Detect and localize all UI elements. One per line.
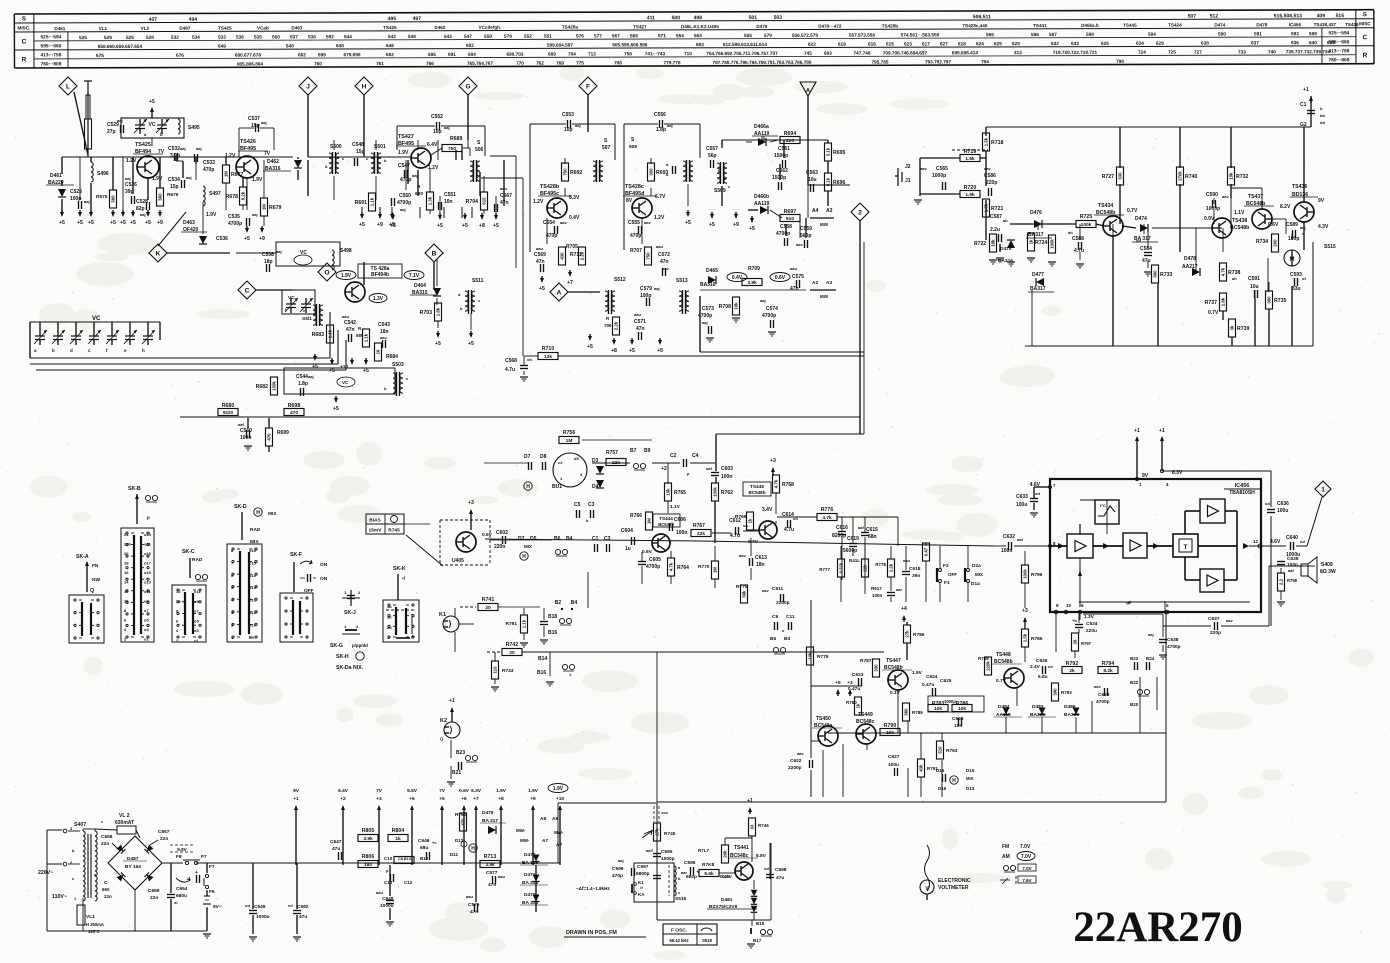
svg-text:3k: 3k bbox=[1230, 325, 1235, 330]
svg-text:1M: 1M bbox=[713, 567, 718, 573]
svg-text:1.1V: 1.1V bbox=[1234, 210, 1245, 216]
svg-text:150k: 150k bbox=[272, 381, 277, 391]
svg-text:+5: +5 bbox=[629, 348, 635, 354]
svg-text:+5: +5 bbox=[435, 341, 441, 347]
svg-text:+9: +9 bbox=[259, 236, 265, 242]
svg-text:685: 685 bbox=[428, 52, 436, 57]
svg-text:10p: 10p bbox=[564, 127, 573, 133]
svg-text:538: 538 bbox=[308, 34, 316, 39]
svg-text:C9: C9 bbox=[772, 614, 778, 620]
svg-text:R699: R699 bbox=[277, 430, 289, 436]
svg-text:470p: 470p bbox=[630, 233, 641, 239]
svg-text:690: 690 bbox=[415, 191, 423, 197]
svg-text:o13: o13 bbox=[249, 585, 257, 590]
svg-text:+7: +7 bbox=[473, 796, 479, 802]
svg-text:741···743: 741···743 bbox=[645, 51, 666, 56]
svg-text:8V: 8V bbox=[626, 198, 633, 204]
svg-text:638: 638 bbox=[1201, 41, 1209, 46]
svg-text:TS426: TS426 bbox=[383, 25, 397, 30]
svg-text:617: 617 bbox=[922, 41, 930, 46]
svg-text:A7: A7 bbox=[542, 838, 548, 844]
svg-text:R798: R798 bbox=[1287, 578, 1298, 583]
svg-text:D1a: D1a bbox=[971, 581, 980, 587]
svg-text:aav: aav bbox=[1094, 684, 1101, 689]
svg-text:7V: 7V bbox=[439, 788, 446, 794]
svg-text:H: H bbox=[362, 83, 367, 90]
svg-text:9V: 9V bbox=[1318, 198, 1325, 204]
svg-text:t°C: t°C bbox=[1100, 503, 1106, 508]
svg-text:C659: C659 bbox=[148, 888, 160, 894]
svg-text:aau: aau bbox=[656, 244, 663, 249]
svg-text:1500p: 1500p bbox=[774, 153, 788, 159]
svg-text:H: H bbox=[526, 484, 530, 490]
svg-text:aaj: aaj bbox=[1300, 225, 1306, 230]
svg-text:R805: R805 bbox=[362, 828, 375, 834]
svg-text:18: 18 bbox=[124, 561, 129, 566]
svg-text:586: 586 bbox=[1031, 32, 1039, 37]
svg-text:dd: dd bbox=[1320, 120, 1325, 125]
svg-text:495: 495 bbox=[388, 16, 397, 22]
svg-text:C548: C548 bbox=[352, 142, 364, 148]
svg-text:B5: B5 bbox=[770, 636, 776, 642]
svg-text:765.764.767: 765.764.767 bbox=[467, 61, 493, 66]
svg-text:R683: R683 bbox=[312, 332, 325, 338]
svg-text:+1: +1 bbox=[1159, 428, 1165, 434]
svg-text:7.6V: 7.6V bbox=[1022, 878, 1031, 883]
svg-text:4700p: 4700p bbox=[762, 313, 776, 319]
svg-text:470: 470 bbox=[461, 818, 466, 826]
svg-text:15p: 15p bbox=[356, 149, 365, 155]
svg-text:o16: o16 bbox=[249, 548, 257, 553]
svg-text:R760: R760 bbox=[455, 812, 467, 818]
svg-text:B21: B21 bbox=[452, 770, 461, 776]
svg-text:15p: 15p bbox=[170, 184, 179, 190]
svg-text:C598: C598 bbox=[775, 867, 787, 873]
svg-text:bb: bb bbox=[1320, 113, 1325, 118]
svg-text:o17: o17 bbox=[144, 561, 152, 566]
svg-text:577: 577 bbox=[594, 33, 602, 38]
svg-text:626: 626 bbox=[1101, 41, 1109, 46]
svg-text:C534: C534 bbox=[168, 177, 180, 183]
svg-text:ah: ah bbox=[1003, 218, 1008, 223]
svg-text:0.7V: 0.7V bbox=[1127, 208, 1138, 214]
svg-text:C526: C526 bbox=[125, 182, 137, 188]
svg-text:+4: +4 bbox=[901, 606, 907, 612]
svg-text:R710: R710 bbox=[542, 346, 555, 352]
svg-text:20: 20 bbox=[485, 605, 491, 611]
svg-text:o5: o5 bbox=[144, 618, 149, 623]
svg-text:R767: R767 bbox=[693, 523, 705, 529]
svg-text:1.5k: 1.5k bbox=[1023, 633, 1028, 642]
svg-text:660: 660 bbox=[102, 887, 110, 892]
svg-text:C8 B10: C8 B10 bbox=[398, 857, 411, 861]
svg-text:R: R bbox=[22, 56, 27, 63]
svg-text:D7: D7 bbox=[524, 454, 531, 460]
svg-text:S511: S511 bbox=[472, 278, 484, 284]
svg-text:680p: 680p bbox=[686, 874, 697, 880]
svg-text:533: 533 bbox=[218, 35, 226, 40]
svg-text:K2: K2 bbox=[440, 718, 447, 724]
svg-text:C592: C592 bbox=[297, 904, 309, 910]
svg-text:C11: C11 bbox=[786, 614, 795, 620]
svg-text:ah: ah bbox=[1068, 230, 1073, 235]
svg-text:D4: D4 bbox=[592, 484, 599, 490]
svg-text:543: 543 bbox=[444, 34, 452, 39]
svg-text:1.2V: 1.2V bbox=[126, 158, 137, 164]
svg-text:B22: B22 bbox=[1130, 656, 1139, 661]
svg-text:MIX: MIX bbox=[524, 544, 532, 549]
svg-text:aau: aau bbox=[342, 314, 349, 319]
svg-text:R793: R793 bbox=[1061, 690, 1072, 695]
svg-text:C590: C590 bbox=[1206, 192, 1218, 198]
svg-text:557.573.558: 557.573.558 bbox=[849, 33, 875, 38]
svg-text:ON: ON bbox=[320, 576, 328, 582]
svg-text:od: od bbox=[1300, 539, 1305, 544]
svg-text:H: H bbox=[522, 554, 526, 560]
svg-text:8.2V: 8.2V bbox=[1280, 204, 1291, 210]
svg-text:615: 615 bbox=[482, 197, 487, 205]
svg-text:7.0V: 7.0V bbox=[1020, 844, 1031, 850]
svg-text:BF494b: BF494b bbox=[371, 272, 389, 278]
svg-text:C572: C572 bbox=[658, 252, 670, 258]
svg-text:R708: R708 bbox=[719, 304, 732, 310]
svg-text:b: b bbox=[160, 132, 163, 137]
svg-text:B16: B16 bbox=[537, 670, 546, 676]
svg-text:D470···472: D470···472 bbox=[818, 24, 842, 29]
svg-text:B20: B20 bbox=[1130, 702, 1139, 707]
svg-text:TS438: TS438 bbox=[1232, 218, 1247, 224]
svg-text:R7K8: R7K8 bbox=[702, 862, 715, 868]
svg-text:22k: 22k bbox=[697, 531, 705, 537]
svg-text:C637: C637 bbox=[1208, 616, 1220, 622]
svg-text:8.8V: 8.8V bbox=[756, 853, 767, 859]
svg-text:10u: 10u bbox=[808, 177, 817, 183]
svg-text:C577: C577 bbox=[486, 870, 498, 876]
svg-text:770: 770 bbox=[516, 61, 524, 66]
svg-text:R734: R734 bbox=[1256, 239, 1268, 245]
svg-text:525: 525 bbox=[79, 35, 87, 40]
svg-text:TS448: TS448 bbox=[996, 652, 1011, 658]
svg-text:aaj: aaj bbox=[1148, 632, 1154, 637]
svg-text:aaj: aaj bbox=[412, 173, 418, 178]
svg-text:788: 788 bbox=[614, 60, 622, 65]
svg-text:+1: +1 bbox=[747, 798, 753, 804]
svg-text:o15: o15 bbox=[144, 570, 152, 575]
svg-text:C587: C587 bbox=[990, 214, 1002, 220]
svg-text:0.9V: 0.9V bbox=[1204, 216, 1215, 222]
svg-text:od: od bbox=[245, 903, 250, 908]
svg-text:o3: o3 bbox=[194, 628, 199, 633]
svg-text:555: 555 bbox=[744, 33, 752, 38]
svg-text:C2: C2 bbox=[670, 453, 677, 459]
svg-text:+9: +9 bbox=[530, 796, 536, 802]
svg-text:3.4V: 3.4V bbox=[762, 507, 773, 513]
svg-text:C622: C622 bbox=[790, 758, 802, 764]
svg-text:+5: +5 bbox=[329, 368, 335, 374]
svg-text:510: 510 bbox=[938, 746, 943, 754]
svg-text:682: 682 bbox=[386, 52, 394, 57]
svg-text:2.2: 2.2 bbox=[1279, 578, 1284, 585]
svg-text:630mAT: 630mAT bbox=[115, 820, 134, 826]
svg-text:+5: +5 bbox=[359, 222, 365, 228]
svg-text:R724: R724 bbox=[1035, 240, 1048, 246]
svg-text:6.4V: 6.4V bbox=[427, 142, 438, 148]
svg-text:510: 510 bbox=[786, 216, 794, 222]
svg-text:512: 512 bbox=[1210, 14, 1219, 20]
svg-text:S407: S407 bbox=[74, 822, 86, 828]
svg-text:R617: R617 bbox=[871, 586, 882, 591]
svg-text:110: 110 bbox=[493, 666, 498, 674]
svg-text:R786: R786 bbox=[913, 632, 925, 638]
svg-text:+10: +10 bbox=[556, 796, 564, 802]
svg-text:C536: C536 bbox=[216, 236, 228, 242]
svg-text:R777: R777 bbox=[819, 567, 830, 572]
svg-text:R779: R779 bbox=[817, 654, 829, 660]
svg-text:ot: ot bbox=[1302, 276, 1306, 281]
svg-text:o11: o11 bbox=[144, 589, 151, 594]
svg-text:4.3V: 4.3V bbox=[1318, 224, 1329, 230]
svg-text:p: p bbox=[147, 515, 150, 520]
svg-text:R741: R741 bbox=[482, 597, 495, 603]
svg-text:470p: 470p bbox=[612, 873, 623, 879]
svg-text:B14: B14 bbox=[538, 656, 547, 662]
svg-text:22n: 22n bbox=[104, 894, 112, 899]
svg-text:VC: VC bbox=[149, 122, 156, 128]
svg-text:R735: R735 bbox=[1274, 298, 1287, 304]
svg-text:BC548b: BC548b bbox=[748, 490, 765, 495]
svg-text:+8: +8 bbox=[498, 796, 504, 802]
svg-text:47u: 47u bbox=[332, 846, 340, 852]
svg-text:515: 515 bbox=[1336, 13, 1345, 19]
svg-text:B12: B12 bbox=[420, 856, 429, 861]
svg-text:C599: C599 bbox=[612, 866, 624, 872]
svg-text:1.1V: 1.1V bbox=[670, 504, 681, 510]
svg-text:15mV: 15mV bbox=[369, 528, 383, 534]
svg-text:560: 560 bbox=[111, 195, 116, 203]
svg-text:220: 220 bbox=[124, 542, 131, 547]
svg-text:aaj: aaj bbox=[180, 146, 186, 151]
svg-text:R713: R713 bbox=[484, 854, 497, 860]
svg-text:aav: aav bbox=[1226, 618, 1233, 623]
svg-text:F8: F8 bbox=[176, 854, 182, 860]
svg-text:+2: +2 bbox=[661, 466, 667, 472]
svg-text:602: 602 bbox=[466, 43, 474, 48]
svg-text:+3: +3 bbox=[847, 680, 853, 686]
svg-text:1M: 1M bbox=[566, 438, 573, 444]
svg-text:1.9V: 1.9V bbox=[528, 788, 539, 794]
svg-text:TS437: TS437 bbox=[1248, 194, 1263, 200]
svg-text:od: od bbox=[1035, 491, 1040, 496]
svg-text:aaj: aaj bbox=[117, 118, 123, 123]
svg-text:537: 537 bbox=[290, 34, 298, 39]
svg-text:497: 497 bbox=[413, 16, 422, 22]
svg-text:695.696.414: 695.696.414 bbox=[952, 50, 978, 55]
svg-text:8.2k: 8.2k bbox=[241, 191, 246, 200]
svg-text:4700p: 4700p bbox=[228, 221, 242, 227]
svg-text:S: S bbox=[22, 16, 26, 22]
svg-text:+5: +5 bbox=[77, 220, 83, 226]
svg-text:TS436: TS436 bbox=[1292, 184, 1307, 190]
svg-text:2k: 2k bbox=[1069, 668, 1075, 674]
svg-text:5.6V: 5.6V bbox=[407, 788, 418, 794]
svg-text:16: 16 bbox=[124, 570, 129, 575]
svg-text:oh: oh bbox=[743, 523, 748, 528]
svg-text:aaj: aaj bbox=[702, 320, 708, 325]
svg-text:506,511: 506,511 bbox=[973, 14, 991, 20]
svg-text:693: 693 bbox=[824, 51, 832, 56]
svg-text:1M: 1M bbox=[262, 204, 267, 210]
svg-text:R682: R682 bbox=[256, 384, 269, 390]
svg-text:220k: 220k bbox=[986, 661, 991, 671]
svg-text:+5: +5 bbox=[130, 220, 136, 226]
svg-text:584: 584 bbox=[1148, 32, 1156, 37]
svg-text:528: 528 bbox=[146, 35, 154, 40]
svg-text:+2: +2 bbox=[340, 796, 346, 802]
svg-text:R788: R788 bbox=[978, 656, 989, 661]
svg-text:+9: +9 bbox=[733, 222, 739, 228]
svg-text:2200p: 2200p bbox=[788, 765, 802, 771]
svg-text:VCab: VCab bbox=[257, 26, 269, 31]
svg-text:RAD: RAD bbox=[250, 527, 261, 533]
svg-text:+3: +3 bbox=[770, 458, 776, 464]
svg-text:TS428a: TS428a bbox=[562, 25, 579, 30]
svg-text:750: 750 bbox=[563, 168, 568, 176]
svg-text:B24: B24 bbox=[1146, 656, 1155, 661]
svg-text:+5: +5 bbox=[88, 220, 94, 226]
svg-text:+6: +6 bbox=[461, 796, 467, 802]
svg-text:o15: o15 bbox=[249, 560, 257, 565]
svg-text:+6: +6 bbox=[835, 680, 841, 686]
svg-text:525···594: 525···594 bbox=[40, 34, 61, 40]
svg-text:12: 12 bbox=[1253, 539, 1259, 544]
svg-text:Q: Q bbox=[440, 736, 443, 741]
svg-text:B: B bbox=[432, 250, 437, 257]
svg-text:aau: aau bbox=[903, 558, 910, 563]
svg-text:1.3V: 1.3V bbox=[1084, 614, 1095, 620]
svg-text:C613: C613 bbox=[755, 555, 767, 561]
svg-text:C567: C567 bbox=[500, 193, 512, 199]
svg-text:TS441: TS441 bbox=[734, 845, 749, 851]
svg-text:C636: C636 bbox=[1277, 501, 1289, 507]
svg-text:C638: C638 bbox=[1167, 637, 1179, 643]
svg-text:1.8p: 1.8p bbox=[298, 381, 308, 387]
svg-text:o23: o23 bbox=[144, 532, 152, 537]
svg-text:S518: S518 bbox=[702, 938, 712, 943]
svg-text:D474: D474 bbox=[1135, 216, 1147, 222]
svg-text:1.5k: 1.5k bbox=[965, 192, 975, 198]
svg-text:C627: C627 bbox=[888, 754, 900, 760]
svg-text:+5: +5 bbox=[539, 286, 545, 292]
svg-text:680u: 680u bbox=[176, 893, 187, 899]
svg-text:A8: A8 bbox=[540, 816, 546, 822]
svg-text:SK-K: SK-K bbox=[393, 566, 406, 572]
svg-text:675: 675 bbox=[96, 53, 104, 58]
svg-text:47n: 47n bbox=[346, 327, 355, 333]
svg-text:R694: R694 bbox=[784, 131, 797, 137]
svg-text:100u: 100u bbox=[1277, 508, 1288, 514]
svg-text:D487: D487 bbox=[179, 26, 190, 31]
svg-text:C12: C12 bbox=[404, 880, 413, 885]
svg-text:o1: o1 bbox=[194, 638, 199, 643]
svg-text:1.1k: 1.1k bbox=[364, 333, 369, 342]
svg-text:BA316: BA316 bbox=[700, 282, 716, 288]
svg-text:R678: R678 bbox=[226, 194, 239, 200]
svg-text:+3: +3 bbox=[1022, 608, 1028, 614]
svg-text:1.1k: 1.1k bbox=[370, 197, 375, 206]
svg-text:1k: 1k bbox=[748, 518, 753, 523]
svg-text:679.698: 679.698 bbox=[343, 52, 360, 57]
svg-text:10: 10 bbox=[124, 599, 129, 604]
svg-text:1.9V: 1.9V bbox=[912, 670, 923, 676]
svg-text:C10: C10 bbox=[384, 880, 393, 885]
svg-text:494: 494 bbox=[189, 17, 198, 23]
svg-text:S512: S512 bbox=[614, 277, 626, 283]
svg-text:R775: R775 bbox=[736, 584, 748, 590]
svg-text:2.2k: 2.2k bbox=[614, 321, 619, 330]
svg-text:NW: NW bbox=[92, 577, 100, 583]
svg-text:B16: B16 bbox=[548, 630, 557, 636]
svg-text:47u: 47u bbox=[299, 914, 307, 920]
svg-text:o1: o1 bbox=[144, 637, 149, 642]
svg-text:220p: 220p bbox=[986, 180, 997, 186]
svg-text:646: 646 bbox=[386, 43, 394, 48]
svg-text:R765: R765 bbox=[674, 490, 686, 496]
svg-text:D466a: D466a bbox=[754, 124, 769, 130]
svg-text:592: 592 bbox=[326, 34, 334, 39]
svg-text:MW-: MW- bbox=[520, 838, 530, 843]
svg-text:1.3V: 1.3V bbox=[373, 296, 384, 302]
svg-text:1.1k: 1.1k bbox=[522, 619, 527, 628]
svg-text:+1: +1 bbox=[1134, 428, 1140, 434]
svg-text:100k: 100k bbox=[713, 487, 718, 497]
svg-text:+5: +5 bbox=[439, 796, 445, 802]
svg-text:J1: J1 bbox=[905, 178, 911, 184]
svg-text:100k: 100k bbox=[1023, 569, 1028, 579]
svg-text:553: 553 bbox=[694, 33, 702, 38]
svg-text:529: 529 bbox=[104, 35, 112, 40]
svg-text:C562: C562 bbox=[776, 168, 788, 174]
svg-text:200: 200 bbox=[1273, 239, 1278, 247]
svg-text:0.4V: 0.4V bbox=[732, 275, 743, 281]
svg-text:C542: C542 bbox=[344, 320, 356, 326]
svg-text:aav: aav bbox=[797, 751, 804, 756]
svg-text:2o: 2o bbox=[387, 625, 392, 630]
svg-text:+5: +5 bbox=[437, 223, 443, 229]
svg-text:590: 590 bbox=[1218, 31, 1226, 36]
svg-text:+5: +5 bbox=[110, 220, 116, 226]
svg-text:547: 547 bbox=[464, 34, 472, 39]
svg-text:C634: C634 bbox=[1086, 621, 1098, 627]
svg-text:20: 20 bbox=[124, 551, 129, 556]
svg-text:D462: D462 bbox=[434, 25, 445, 30]
svg-text:aav: aav bbox=[796, 242, 803, 247]
svg-text:R743: R743 bbox=[502, 668, 514, 674]
svg-text:0.6V: 0.6V bbox=[642, 549, 653, 555]
svg-text:aaf: aaf bbox=[1288, 568, 1294, 573]
svg-text:1.9V: 1.9V bbox=[341, 273, 352, 279]
svg-text:C579: C579 bbox=[640, 286, 652, 292]
svg-text:20k: 20k bbox=[723, 850, 728, 858]
svg-text:D481: D481 bbox=[721, 897, 733, 903]
svg-text:aar: aar bbox=[896, 587, 902, 592]
svg-text:4700p: 4700p bbox=[397, 200, 411, 206]
svg-text:628: 628 bbox=[1012, 41, 1020, 46]
svg-text:TS425: TS425 bbox=[218, 26, 232, 31]
svg-text:o21: o21 bbox=[144, 542, 152, 547]
svg-text:C: C bbox=[22, 38, 27, 45]
svg-text:MW-: MW- bbox=[554, 830, 564, 835]
svg-text:794: 794 bbox=[981, 59, 989, 64]
